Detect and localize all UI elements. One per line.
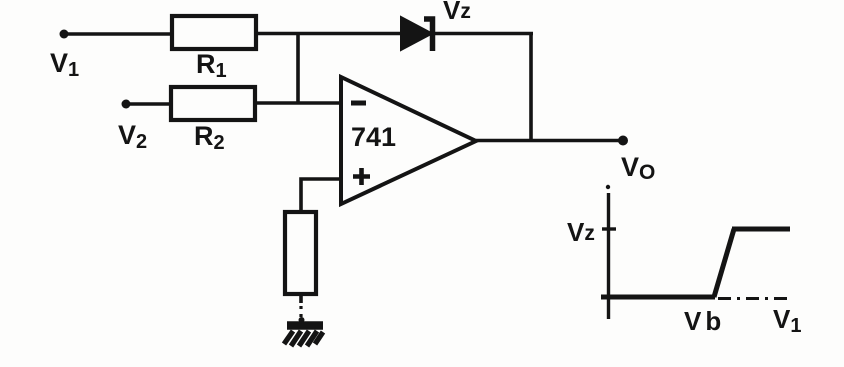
wire resistor to ground stub — [299, 294, 303, 303]
wire V1 to R1 — [64, 32, 172, 36]
graph x-axis dash-dot continuation — [718, 297, 789, 300]
graph y-axis — [607, 193, 610, 319]
svg-text:Vz: Vz — [567, 217, 595, 247]
resistor R1 — [172, 16, 256, 49]
graph curve top flat at Vz — [732, 227, 790, 232]
resistor R2 — [171, 87, 255, 120]
wire feedback vertical down to output — [529, 34, 533, 141]
wire R2 to op-amp inverting input — [255, 101, 341, 105]
graph curve flat zero segment — [601, 295, 715, 300]
wire R1 to diode anode — [256, 32, 401, 36]
pin label plus — [353, 168, 370, 185]
svg-text:741: 741 — [351, 122, 396, 152]
graph y-axis dotted tip — [606, 185, 610, 189]
wire junction vertical (summing node) — [296, 34, 300, 104]
graph Vz tick — [602, 227, 616, 230]
wire dotted segment to ground — [299, 306, 302, 321]
svg-text:Vz: Vz — [443, 0, 471, 25]
resistor R3 (grounding resistor) — [285, 212, 316, 294]
wire op-amp output to Vo — [476, 139, 623, 143]
wire diode cathode to feedback corner — [435, 32, 533, 36]
zener diode Vz : cathode bar with bent wing — [424, 19, 433, 51]
op-amp U1 741 — [341, 77, 476, 204]
pin label minus — [351, 101, 366, 106]
ground — [284, 317, 323, 346]
zener diode Vz : anode triangle — [401, 17, 432, 50]
wire op-amp noninverting input — [301, 179, 341, 212]
graph curve rising edge — [714, 229, 734, 297]
terminal dot Vo — [618, 136, 628, 146]
terminal dot V2 — [122, 100, 131, 109]
wire V2 to R2 — [126, 102, 171, 106]
terminal dot V1 — [60, 30, 69, 39]
